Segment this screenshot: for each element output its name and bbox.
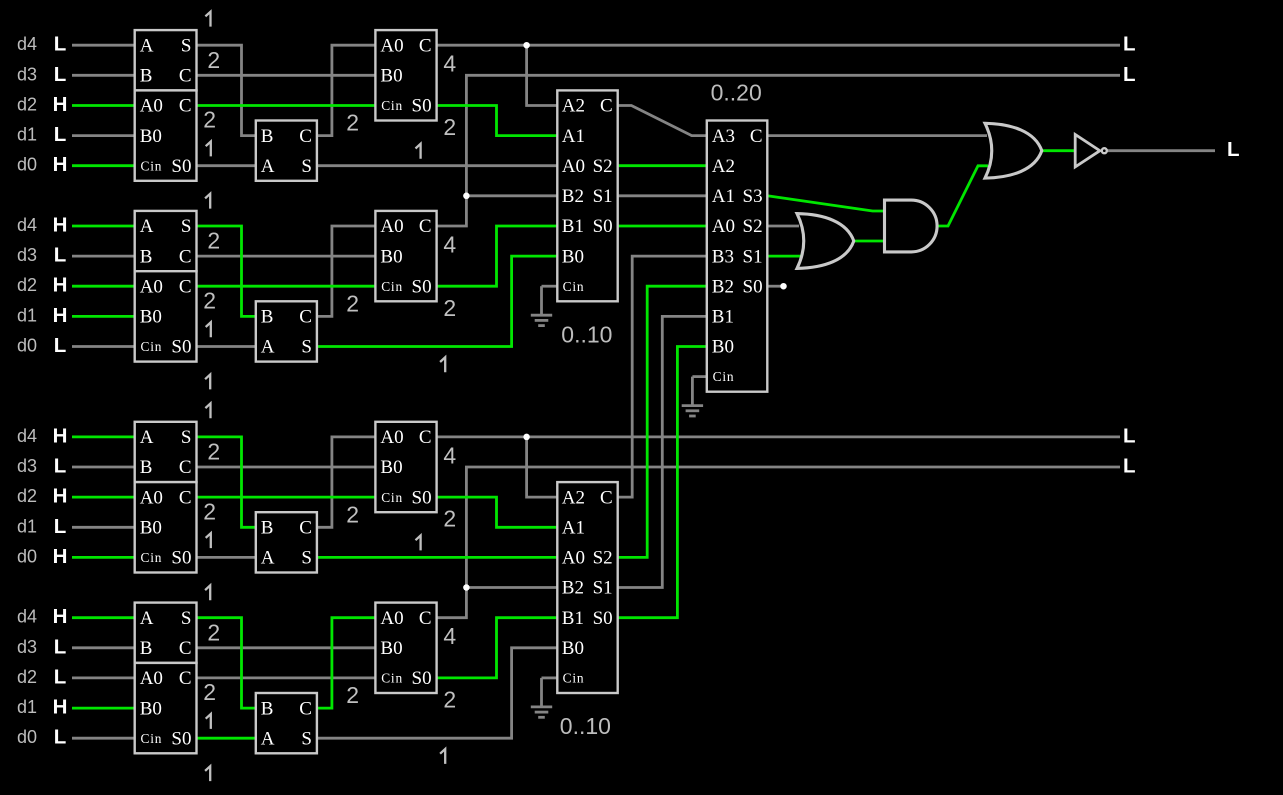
svg-text:H: H (53, 304, 68, 327)
svg-text:d1: d1 (17, 125, 37, 145)
svg-text:Cin: Cin (381, 98, 403, 113)
svg-text:L: L (54, 334, 67, 357)
svg-text:d1: d1 (17, 305, 37, 325)
svg-text:A1: A1 (712, 186, 735, 207)
svg-text:A2: A2 (712, 156, 735, 177)
svg-text:L: L (54, 244, 67, 267)
svg-text:S2: S2 (743, 216, 763, 237)
svg-text:B: B (261, 698, 274, 719)
svg-text:A2: A2 (562, 487, 585, 508)
svg-text:L: L (1227, 138, 1240, 161)
svg-text:A: A (261, 728, 275, 749)
svg-text:A0: A0 (140, 668, 163, 689)
svg-text:A1: A1 (562, 126, 585, 147)
svg-text:S0: S0 (593, 216, 613, 237)
svg-text:S0: S0 (412, 668, 432, 689)
svg-text:B0: B0 (380, 457, 402, 478)
svg-text:B3: B3 (712, 246, 734, 267)
svg-text:B0: B0 (380, 246, 402, 267)
svg-text:d1: d1 (17, 516, 37, 536)
svg-text:A0: A0 (380, 216, 403, 237)
svg-text:C: C (419, 35, 432, 56)
svg-text:Cin: Cin (563, 671, 585, 686)
svg-text:d0: d0 (17, 727, 37, 747)
svg-text:H: H (53, 93, 68, 116)
svg-text:C: C (299, 307, 312, 328)
svg-text:2: 2 (443, 295, 456, 321)
svg-text:L: L (54, 665, 67, 688)
svg-text:L: L (1123, 33, 1136, 56)
svg-text:4: 4 (443, 623, 456, 649)
svg-text:S: S (181, 35, 192, 56)
svg-text:A: A (140, 35, 154, 56)
svg-text:Cin: Cin (141, 731, 163, 746)
svg-text:2: 2 (443, 506, 456, 532)
svg-text:A: A (261, 548, 275, 569)
svg-text:4: 4 (443, 51, 456, 77)
svg-text:S: S (181, 608, 192, 629)
svg-text:2: 2 (346, 290, 359, 316)
svg-text:H: H (53, 424, 68, 447)
svg-text:Cin: Cin (381, 671, 403, 686)
svg-text:2: 2 (346, 110, 359, 136)
svg-text:S: S (181, 216, 192, 237)
svg-text:4: 4 (443, 231, 456, 257)
svg-text:S0: S0 (412, 487, 432, 508)
svg-text:S1: S1 (593, 186, 613, 207)
svg-text:H: H (53, 696, 68, 719)
svg-text:B: B (261, 307, 274, 328)
svg-text:C: C (600, 96, 613, 117)
svg-text:A0: A0 (140, 96, 163, 117)
svg-text:S: S (301, 728, 312, 749)
svg-text:B2: B2 (712, 276, 734, 297)
svg-text:d0: d0 (17, 546, 37, 566)
svg-text:C: C (179, 276, 192, 297)
svg-text:S2: S2 (593, 156, 613, 177)
svg-text:0..20: 0..20 (711, 80, 762, 106)
svg-text:A0: A0 (562, 156, 585, 177)
svg-text:C: C (299, 518, 312, 539)
svg-text:B0: B0 (140, 698, 162, 719)
svg-text:C: C (179, 668, 192, 689)
svg-text:L: L (1123, 424, 1136, 447)
svg-text:d2: d2 (17, 95, 37, 115)
svg-text:H: H (53, 605, 68, 628)
svg-text:B: B (140, 638, 153, 659)
svg-text:H: H (53, 545, 68, 568)
svg-text:d0: d0 (17, 155, 37, 175)
svg-text:Cin: Cin (141, 550, 163, 565)
svg-text:C: C (179, 66, 192, 87)
svg-text:2: 2 (203, 679, 216, 705)
svg-text:2: 2 (346, 501, 359, 527)
svg-text:B: B (140, 66, 153, 87)
svg-text:L: L (1123, 455, 1136, 478)
svg-text:S2: S2 (593, 548, 613, 569)
svg-text:L: L (54, 635, 67, 658)
svg-text:d2: d2 (17, 486, 37, 506)
svg-text:d4: d4 (17, 426, 37, 446)
svg-text:2: 2 (346, 682, 359, 708)
svg-text:d3: d3 (17, 637, 37, 657)
svg-text:C: C (299, 698, 312, 719)
svg-text:d0: d0 (17, 336, 37, 356)
svg-text:A: A (261, 337, 275, 358)
svg-text:C: C (299, 126, 312, 147)
svg-text:A: A (140, 216, 154, 237)
svg-text:B: B (140, 246, 153, 267)
svg-text:A: A (140, 608, 154, 629)
svg-text:2: 2 (207, 439, 220, 465)
svg-text:2: 2 (207, 228, 220, 254)
svg-text:C: C (179, 487, 192, 508)
svg-text:S0: S0 (593, 608, 613, 629)
svg-text:d3: d3 (17, 456, 37, 476)
svg-text:A0: A0 (380, 35, 403, 56)
svg-text:C: C (179, 96, 192, 117)
svg-text:H: H (53, 214, 68, 237)
svg-text:S: S (181, 427, 192, 448)
svg-text:A3: A3 (712, 126, 735, 147)
svg-text:Cin: Cin (381, 490, 403, 505)
svg-text:H: H (53, 153, 68, 176)
svg-text:S: S (301, 548, 312, 569)
svg-text:d3: d3 (17, 64, 37, 84)
svg-text:S0: S0 (171, 337, 191, 358)
svg-text:2: 2 (203, 498, 216, 524)
svg-text:A0: A0 (380, 608, 403, 629)
svg-text:S: S (301, 337, 312, 358)
svg-text:C: C (179, 246, 192, 267)
svg-text:B0: B0 (140, 307, 162, 328)
svg-text:L: L (54, 726, 67, 749)
svg-text:4: 4 (443, 442, 456, 468)
svg-text:A0: A0 (140, 487, 163, 508)
svg-text:B0: B0 (562, 246, 584, 267)
svg-text:A: A (140, 427, 154, 448)
svg-text:B0: B0 (562, 638, 584, 659)
svg-text:L: L (54, 123, 67, 146)
svg-text:S0: S0 (412, 96, 432, 117)
svg-text:d2: d2 (17, 275, 37, 295)
svg-text:B2: B2 (562, 578, 584, 599)
svg-text:B1: B1 (562, 608, 584, 629)
svg-text:d3: d3 (17, 245, 37, 265)
svg-text:B: B (261, 518, 274, 539)
svg-text:2: 2 (207, 619, 220, 645)
svg-text:C: C (750, 126, 763, 147)
svg-text:H: H (53, 274, 68, 297)
svg-text:d4: d4 (17, 34, 37, 54)
svg-text:2: 2 (207, 47, 220, 73)
svg-text:B0: B0 (380, 66, 402, 87)
svg-text:S0: S0 (171, 728, 191, 749)
svg-text:B0: B0 (712, 337, 734, 358)
svg-text:B: B (140, 457, 153, 478)
svg-text:S0: S0 (171, 548, 191, 569)
svg-text:B2: B2 (562, 186, 584, 207)
svg-text:2: 2 (203, 287, 216, 313)
svg-text:2: 2 (203, 107, 216, 133)
svg-text:0..10: 0..10 (560, 713, 611, 739)
svg-text:S: S (301, 156, 312, 177)
svg-text:0..10: 0..10 (561, 321, 612, 347)
svg-text:A2: A2 (562, 96, 585, 117)
svg-text:S0: S0 (412, 276, 432, 297)
svg-text:B1: B1 (562, 216, 584, 237)
svg-text:L: L (54, 455, 67, 478)
svg-text:C: C (179, 638, 192, 659)
svg-text:A1: A1 (562, 518, 585, 539)
svg-text:Cin: Cin (563, 279, 585, 294)
svg-text:d2: d2 (17, 667, 37, 687)
svg-text:A0: A0 (562, 548, 585, 569)
svg-text:A0: A0 (712, 216, 735, 237)
svg-text:d4: d4 (17, 607, 37, 627)
svg-text:B0: B0 (380, 638, 402, 659)
svg-text:L: L (54, 33, 67, 56)
svg-text:S0: S0 (743, 276, 763, 297)
svg-text:d4: d4 (17, 215, 37, 235)
svg-text:Cin: Cin (381, 279, 403, 294)
svg-text:Cin: Cin (713, 369, 735, 384)
svg-text:B: B (261, 126, 274, 147)
svg-text:L: L (54, 63, 67, 86)
svg-text:H: H (53, 485, 68, 508)
svg-text:S3: S3 (743, 186, 763, 207)
svg-text:Cin: Cin (141, 158, 163, 173)
svg-text:2: 2 (443, 114, 456, 140)
svg-text:S1: S1 (593, 578, 613, 599)
svg-text:B1: B1 (712, 307, 734, 328)
svg-text:B0: B0 (140, 126, 162, 147)
svg-text:A: A (261, 156, 275, 177)
svg-text:C: C (179, 457, 192, 478)
svg-text:d1: d1 (17, 697, 37, 717)
svg-text:A0: A0 (380, 427, 403, 448)
svg-text:L: L (54, 515, 67, 538)
svg-text:C: C (600, 487, 613, 508)
svg-text:C: C (419, 608, 432, 629)
svg-text:C: C (419, 216, 432, 237)
svg-text:A0: A0 (140, 276, 163, 297)
svg-text:L: L (1123, 63, 1136, 86)
svg-text:B0: B0 (140, 518, 162, 539)
svg-text:Cin: Cin (141, 339, 163, 354)
svg-text:S0: S0 (171, 156, 191, 177)
svg-text:S1: S1 (743, 246, 763, 267)
svg-text:2: 2 (443, 687, 456, 713)
svg-text:C: C (419, 427, 432, 448)
